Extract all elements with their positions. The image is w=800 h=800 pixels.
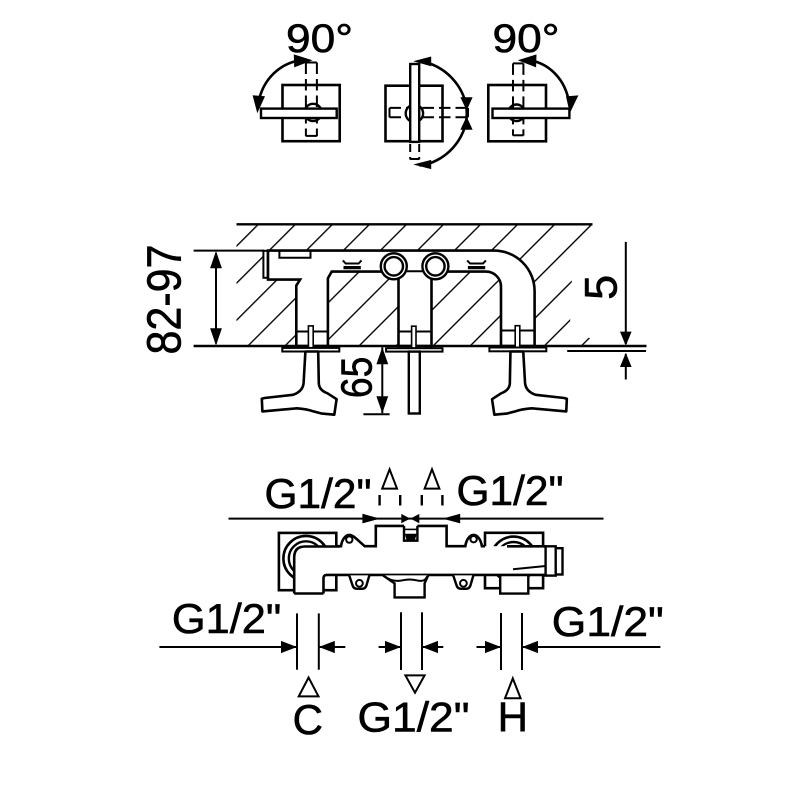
wall top edge [237, 223, 593, 225]
valve stem circle top-left [305, 104, 322, 121]
svg-text:90°: 90° [493, 17, 560, 61]
dashed alternate handle position top-right [513, 63, 523, 135]
svg-text:G1/2": G1/2" [457, 467, 564, 514]
bottom center port block [383, 575, 428, 597]
arrowhead arc bottom end top-middle [413, 160, 431, 169]
dimension center port [379, 646, 401, 648]
cartridge base line middle leg [399, 331, 432, 333]
rotation arc top-left [258, 60, 304, 105]
end cap nut on body left [263, 251, 267, 278]
casting wave line [385, 576, 428, 580]
handle bar horizontal top-left [261, 109, 337, 118]
top center port notch [404, 526, 417, 541]
arrowhead arc middle pointing down top-middle [460, 97, 472, 110]
arrowhead arc end right top-left [294, 54, 313, 67]
rough-in valve body embedded in wall [268, 251, 535, 346]
arrowhead left-pointing at port2 right [443, 514, 461, 524]
dimension 65 [381, 347, 383, 413]
arrowhead pair bowtie between ports [401, 514, 410, 523]
stem pin right leg [515, 326, 520, 348]
supply connection circle left [381, 253, 407, 279]
screw top-left [346, 536, 352, 542]
screw top-right [470, 536, 476, 542]
bottom screw lug left [349, 575, 369, 588]
svg-text:90°: 90° [286, 17, 353, 61]
dashed handle extension below top-middle [410, 144, 419, 160]
arrowhead arc middle pointing up top-middle [460, 117, 472, 130]
escutcheon flange right [489, 348, 546, 352]
front view right square block [485, 533, 543, 588]
body bar fill [330, 546, 546, 575]
cold elbow in left block [294, 547, 340, 594]
mounting clip left [343, 260, 362, 263]
svg-text:G1/2": G1/2" [265, 470, 372, 517]
body top profile with screw lugs [336, 526, 485, 546]
arrowhead arc end right-down top-right [566, 95, 578, 113]
dashed port centerlines top [380, 495, 443, 506]
cartridge base line left leg [296, 331, 328, 333]
valve stem circle top-middle [406, 105, 423, 122]
valve body square top-left [283, 85, 340, 141]
cross handle right [492, 352, 567, 415]
front view left port circles [283, 536, 328, 581]
dimension C port [159, 646, 297, 648]
marker triangle C [299, 678, 319, 697]
svg-text:82-97: 82-97 [139, 245, 192, 355]
wall surface line [194, 345, 647, 347]
rotation arc top-right [526, 60, 570, 105]
dashed alternate handle position top-left [306, 63, 317, 137]
dashed alternate handle horizontal top-middle [390, 108, 469, 117]
rotation arc top-middle [420, 61, 467, 165]
port marker triangle top port 2 [425, 469, 440, 488]
finished wall line right [567, 350, 646, 352]
cross handle left [262, 352, 337, 415]
dimension line top ports [229, 518, 604, 520]
dimension H port [477, 646, 502, 648]
svg-text:5: 5 [576, 275, 627, 300]
dimension 82-97 [215, 253, 217, 344]
svg-text:G1/2": G1/2" [172, 595, 281, 642]
wall hatch [237, 224, 593, 346]
front view right port circles [491, 537, 536, 582]
top recess detail on body left [279, 251, 310, 258]
bottom screw lug right [453, 575, 473, 588]
body bottom edge [326, 574, 546, 577]
escutcheon flange left [282, 348, 339, 352]
side outlet in right block [507, 545, 546, 548]
svg-text:G1/2": G1/2" [358, 694, 470, 741]
mounting clip right [467, 260, 486, 263]
handle bar vertical top-middle [410, 64, 419, 142]
extension line top (82-97) [194, 250, 264, 252]
svg-text:C: C [293, 696, 323, 743]
arrowhead arc top end top-middle [413, 57, 431, 67]
svg-text:65: 65 [333, 357, 382, 399]
marker triangle H [505, 678, 521, 698]
arrowhead right-pointing at port1 left [362, 514, 380, 524]
valve stem circle top-right [508, 105, 525, 122]
spout outlet tube middle [409, 352, 420, 414]
middle drop leg [395, 272, 436, 346]
arrowhead arc end left top-right [518, 54, 537, 67]
valve body square top-middle [386, 86, 443, 142]
handle bar horizontal top-right [493, 109, 570, 118]
svg-text:G1/2": G1/2" [552, 598, 664, 645]
raised center section fill [376, 526, 447, 547]
escutcheon flange middle [386, 348, 442, 351]
arrowhead arc end left-down top-left [253, 95, 265, 113]
svg-text:H: H [498, 694, 528, 741]
hot inlet stub under right block [500, 576, 528, 594]
marker triangle center down [405, 675, 424, 692]
valve body square top-right [488, 85, 546, 141]
dimension 5 [625, 242, 627, 344]
stem pin left leg [308, 326, 313, 348]
port marker triangle top port 1 [382, 469, 397, 488]
supply connection circle right [422, 253, 448, 279]
cartridge base line right leg [501, 330, 535, 332]
front view left square block [279, 533, 336, 590]
stem pin middle leg [412, 326, 416, 348]
